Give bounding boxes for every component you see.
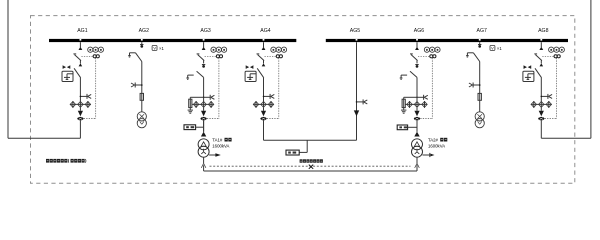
busbar connection notches (80, 39, 543, 41)
label AG2 (139, 28, 149, 34)
wire (dashed interlock run) AG1 (84, 58, 96, 119)
LV output arrow TA1 (209, 153, 221, 157)
wire TA1 HV lead (203, 120, 205, 131)
cable symbol AG1 (77, 117, 83, 121)
svg-text:AG1: AG1 (77, 28, 87, 34)
circuit breaker AG6 (410, 54, 418, 64)
busbar section I (49, 39, 296, 42)
cable symbol AG3 (201, 117, 207, 121)
wire (dashed interlock run) AG4 (267, 58, 279, 119)
wire AG1 to cable (79, 120, 81, 138)
ammeters AG3 (3x instrument circles) (211, 47, 227, 52)
fuse AG2 (140, 93, 143, 100)
wire AG2 stem (141, 42, 143, 44)
feeder AG2 (PT panel) (128, 42, 164, 128)
svg-text:1600kVA: 1600kVA (212, 144, 229, 149)
drawout contact (upper) AG4 (262, 47, 266, 50)
wire (dashed CT secondary link) AG3 (205, 55, 217, 57)
wire (dashed CT secondary link) AG4 (265, 55, 277, 57)
wire AG7 drop (479, 62, 481, 112)
tie arrowhead at TA2 (415, 163, 420, 168)
tie arrowhead at TA1 (201, 163, 206, 168)
wire AG8 stem from busbar (540, 42, 542, 47)
wire incoming supply line right (541, 0, 591, 138)
disconnector AG7 (473, 53, 479, 62)
earthing switch AG3 (186, 75, 193, 79)
ammeters AG6 (3x instrument circles) (424, 47, 440, 52)
wire AG4 to tie (263, 120, 265, 140)
control box TA2 controller (397, 125, 417, 130)
label AG6 (414, 28, 424, 34)
wire AG6 to transformer (416, 120, 418, 131)
wire AG6 arrester branch (404, 96, 417, 98)
svg-text:TA2#: TA2# (428, 137, 439, 142)
live-line display indicator AG4 (263, 94, 275, 99)
label AG3 (200, 28, 210, 34)
wire TA2 LV stem (416, 157, 418, 163)
earthing truck symbol AG1 (63, 65, 70, 68)
wire (dashed CT secondary link) AG8 (542, 55, 554, 57)
drawout contact (upper) AG1 (79, 47, 83, 50)
wire AG1 main drop (79, 78, 81, 101)
current transformer CT AG1 (93, 55, 99, 58)
wire AG8 to cable (540, 120, 542, 138)
surge arresters (3x) AG3 (192, 101, 214, 108)
surge arresters (3x) AG1 (70, 101, 91, 108)
circuit breaker AG8 (534, 54, 542, 64)
fuse AG7 (478, 93, 481, 100)
label AG4 (260, 28, 270, 34)
LV output arrow TA2 (423, 153, 435, 157)
wire (dashed interlock run) AG6 (420, 58, 432, 119)
wire tie cable AG4-AG5 (264, 140, 357, 152)
cable symbol AG6 (414, 117, 420, 121)
earthing device box AG1 (62, 71, 73, 81)
wire AG4 stem from busbar (263, 42, 265, 47)
earthing switch AG2 (128, 53, 135, 57)
earthing device box AG8 (523, 71, 534, 81)
wire (dashed interlock run) AG3 (207, 58, 219, 119)
svg-text:1600kVA: 1600kVA (428, 144, 445, 149)
feeder AG6 (transformer feeder) (400, 42, 440, 132)
live-line display indicator AG7 (469, 83, 481, 88)
drawout contact (lower) AG4 (262, 63, 266, 66)
wire AG4 to cable (263, 120, 265, 138)
cable termination AG4 (261, 111, 266, 117)
cable termination AG3 (201, 111, 206, 117)
circuit breaker AG4 (257, 54, 265, 64)
live-line display indicator AG2 (131, 83, 143, 88)
current transformer CT AG4 (276, 55, 282, 58)
ammeters AG8 (3x instrument circles) (549, 47, 565, 52)
current transformer CT AG6 (430, 55, 436, 58)
voltmeter label AG7 (490, 46, 502, 51)
live-line display indicator AG5 (356, 99, 368, 104)
feeder AG5 (bus tie riser) (354, 42, 368, 140)
wire TA1 LV stem (203, 157, 205, 163)
wire AG3 stem from busbar (203, 42, 205, 47)
cable termination TA2 riser (414, 132, 419, 137)
feeder AG8 (cable incomer) (523, 42, 565, 138)
substation boundary (dashed) (31, 16, 575, 184)
live-line display indicator AG8 (541, 94, 553, 99)
normally-open point X (309, 165, 313, 169)
drawout contact (lower) AG1 (79, 63, 83, 66)
live-line display indicator AG6 (417, 95, 428, 100)
svg-text:AG8: AG8 (538, 28, 548, 34)
ground AG6 (401, 110, 406, 113)
cable termination AG1 (78, 111, 83, 117)
earthing switch AG6 (400, 75, 407, 79)
voltage transformer PT AG7 (475, 112, 484, 128)
label AG7 (477, 28, 487, 34)
disconnector AG3 (197, 71, 204, 77)
label substation caption (46, 159, 86, 163)
label AG1 (77, 28, 87, 34)
wire AG6 main drop (416, 77, 418, 101)
transformer TA2 (412, 139, 423, 157)
label AG5 (350, 28, 360, 34)
svg-text:AG5: AG5 (350, 28, 360, 34)
feeder AG1 (cable incomer) (62, 42, 104, 138)
fixed contact AG7 (478, 45, 481, 48)
wire AG6 stem from busbar (416, 42, 418, 47)
wire AG3 main drop (203, 77, 205, 101)
wire LV tie route (dashed) (210, 165, 411, 167)
live-line display indicator AG3 (204, 95, 215, 100)
surge arresters (3x) AG4 (253, 101, 274, 108)
transformer TA1 (198, 139, 209, 157)
wire AG3 arrester branch (190, 96, 203, 98)
label TA1 rating (212, 137, 231, 148)
circuit breaker AG1 (73, 54, 81, 64)
wire LV tie (solid) (204, 165, 417, 171)
earthing device box AG4 (245, 71, 256, 81)
voltage transformer PT AG2 (137, 112, 146, 128)
wire (dashed interlock run) AG8 (545, 58, 557, 119)
cable termination TA1 riser (201, 132, 206, 137)
wire incoming supply line left (8, 0, 80, 138)
cable termination AG8 (539, 111, 544, 117)
svg-text:TA1#: TA1# (212, 137, 223, 142)
wire AG1 (79, 108, 81, 111)
control box TA1 controller (184, 125, 204, 130)
earthing truck symbol AG8 (524, 65, 531, 68)
wire AG4 (263, 108, 265, 111)
wire (dashed CT secondary link) AG6 (418, 55, 430, 57)
surge arresters (3x) AG6 (405, 101, 427, 108)
wire AG5 drop (356, 42, 358, 140)
drawout contact (upper) AG3 (202, 47, 206, 50)
circuit breaker AG3 (197, 54, 205, 64)
wire AG3 (203, 108, 205, 111)
feeder AG3 (transformer feeder) (186, 42, 226, 132)
ammeters AG1 (3x instrument circles) (88, 47, 104, 52)
svg-text:AG6: AG6 (414, 28, 424, 34)
cable symbol AG8 (538, 117, 544, 121)
wire AG4 main drop (263, 78, 265, 101)
control box tie metering (286, 150, 299, 155)
line arrow AG5 (354, 110, 359, 116)
wire AG7 stem (479, 42, 481, 44)
live-line display indicator AG1 (80, 94, 92, 99)
feeder AG4 (cable incomer) (245, 42, 287, 138)
wire AG2 drop (141, 62, 143, 112)
drawout contact (upper) AG6 (415, 47, 419, 50)
earthing truck symbol AG4 (246, 65, 253, 68)
node AG7 junction (479, 84, 481, 86)
wire AG6 (416, 108, 418, 111)
node AG6 junction (416, 97, 418, 99)
surge arrester (rect) AG6 (402, 97, 405, 110)
node AG3 junction (203, 97, 205, 99)
surge arresters (3x) AG8 (531, 101, 552, 108)
label three-phase four-wire line (300, 159, 323, 162)
wire AG3 to transformer (203, 120, 205, 131)
svg-text:V: V (491, 47, 494, 51)
earthing switch AG7 (466, 53, 473, 57)
fixed contact AG2 (140, 45, 143, 48)
svg-text:AG3: AG3 (200, 28, 210, 34)
drawout contact (upper) AG8 (539, 47, 543, 50)
svg-text:AG2: AG2 (139, 28, 149, 34)
surge arrester (rect) AG3 (189, 97, 192, 110)
svg-text:×1: ×1 (159, 46, 164, 51)
node AG2 junction (141, 84, 143, 86)
ammeters AG4 (3x instrument circles) (271, 47, 287, 52)
disconnector AG6 (410, 71, 417, 77)
fixed contact AG3 (202, 65, 205, 68)
svg-text:AG7: AG7 (477, 28, 487, 34)
wire AG8 main drop (540, 78, 542, 101)
voltmeter label AG2 (152, 46, 164, 51)
disconnector AG4 (257, 68, 264, 78)
disconnector AG2 (136, 53, 142, 62)
busbar section II (326, 39, 568, 42)
current transformer CT AG8 (554, 55, 560, 58)
cable symbol AG4 (260, 117, 266, 121)
feeder AG7 (PT panel) (466, 42, 502, 128)
fixed contact AG6 (415, 65, 418, 68)
wire TA2 HV lead (416, 120, 418, 131)
svg-text:×1: ×1 (497, 46, 502, 51)
svg-text:AG4: AG4 (260, 28, 270, 34)
drawout contact (lower) AG8 (540, 63, 544, 66)
wire AG8 (540, 108, 542, 111)
ground AG3 (188, 110, 193, 113)
current transformer CT AG3 (216, 55, 222, 58)
wire (dashed CT secondary link) AG1 (81, 55, 93, 57)
disconnector AG1 (74, 68, 81, 78)
cable termination AG6 (414, 111, 419, 117)
disconnector AG8 (535, 68, 542, 78)
wire AG1 stem from busbar (79, 42, 81, 47)
label TA2 rating (428, 137, 447, 148)
label AG8 (538, 28, 548, 34)
